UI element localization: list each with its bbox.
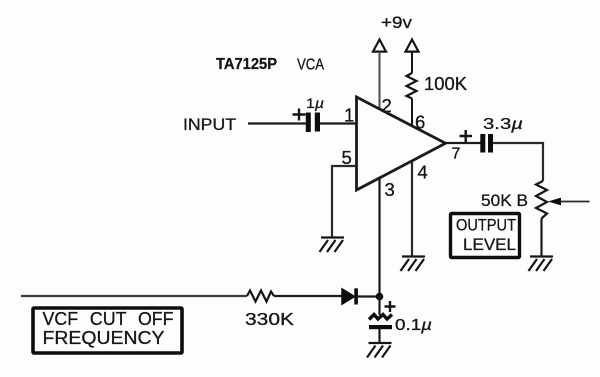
svg-text:TA7125P: TA7125P	[216, 56, 277, 73]
pot wiper arrow	[548, 198, 590, 206]
diode	[342, 288, 376, 304]
svg-text:50K B: 50K B	[481, 191, 528, 210]
svg-text:1: 1	[344, 105, 354, 126]
wire junction to cap	[378, 297, 380, 316]
wire cap to corner	[493, 143, 543, 181]
svg-text:OUTPUT: OUTPUT	[456, 216, 516, 235]
svg-text:+9v: +9v	[381, 13, 413, 32]
svg-text:2: 2	[382, 95, 392, 116]
capacitor 0.1u	[369, 315, 392, 330]
svg-text:100K: 100K	[424, 74, 467, 94]
supply arrow pin2	[373, 40, 386, 52]
svg-text:VCF CUT OFF: VCF CUT OFF	[43, 309, 174, 329]
svg-text:7: 7	[452, 146, 461, 163]
svg-text:1µ: 1µ	[306, 95, 324, 111]
svg-text:3: 3	[385, 179, 395, 200]
ground pin5	[320, 238, 345, 253]
capacitor 1u	[306, 113, 320, 133]
wire pin6 lower	[411, 99, 413, 128]
wire pin5 horizontal	[332, 166, 356, 237]
svg-text:FREQUENCY: FREQUENCY	[43, 328, 165, 348]
resistor 330K	[247, 291, 274, 302]
svg-text:LEVEL: LEVEL	[463, 235, 516, 254]
plus sign output cap	[460, 130, 473, 142]
svg-text:3.3µ: 3.3µ	[483, 116, 523, 133]
capacitor 3.3u	[480, 134, 493, 153]
ground pin4	[401, 257, 426, 272]
wire pot to ground	[540, 219, 542, 257]
ground pot	[529, 257, 554, 272]
wire cap to ground	[378, 329, 380, 343]
plus sign 0.1u cap	[385, 301, 396, 312]
junction node	[376, 293, 384, 301]
wire pin2 supply	[379, 52, 381, 110]
wire pin4	[411, 162, 413, 257]
wire pin3	[378, 178, 380, 297]
svg-text:VCA: VCA	[297, 57, 325, 74]
potentiometer 50K B	[536, 181, 547, 219]
svg-text:5: 5	[342, 147, 352, 168]
ground 0.1u	[367, 343, 392, 358]
wire VCF line	[21, 295, 247, 297]
output level box	[451, 214, 520, 258]
svg-text:INPUT: INPUT	[183, 116, 236, 134]
VCF cut off frequency box	[33, 308, 182, 353]
plus sign input cap	[293, 109, 306, 121]
svg-text:0.1µ: 0.1µ	[395, 317, 432, 334]
svg-text:330K: 330K	[245, 309, 294, 329]
svg-text:6: 6	[415, 112, 425, 133]
svg-text:4: 4	[418, 162, 428, 183]
wire pin6 supply upper	[411, 52, 413, 74]
resistor 100K	[407, 73, 417, 99]
supply arrow pin6	[406, 40, 419, 52]
op-amp TA7125P triangle	[357, 97, 446, 190]
wire output pin7	[445, 142, 481, 144]
wire resistor to diode	[274, 295, 342, 297]
wire cap to pin1	[320, 122, 356, 124]
wire input	[248, 122, 306, 124]
